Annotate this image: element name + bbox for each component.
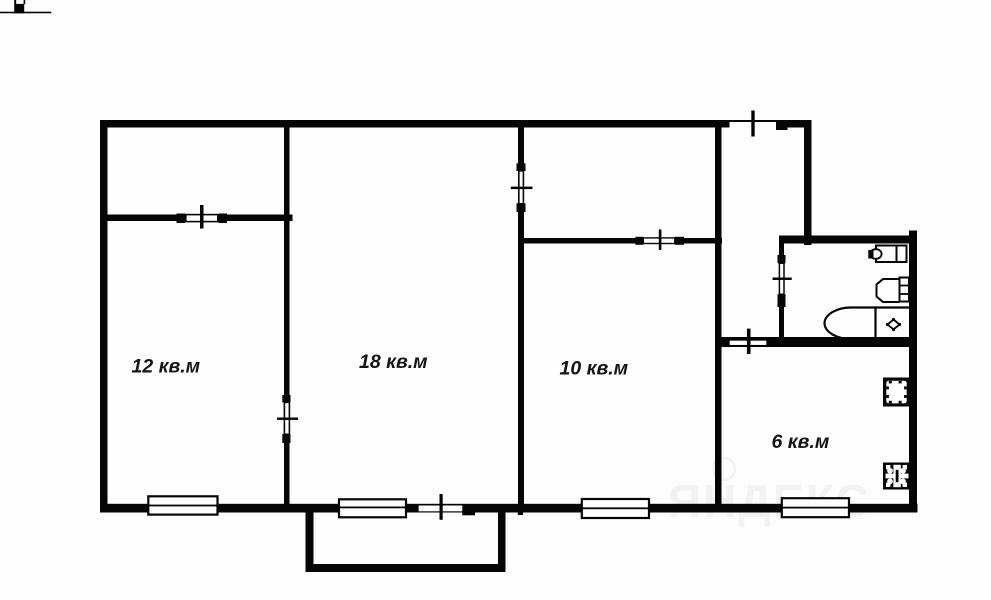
wall between 18 and hall — [518, 120, 524, 512]
door 10 top — [635, 229, 684, 250]
wall bathroom left — [779, 236, 784, 346]
bath diamond — [886, 318, 901, 331]
wall right lower outer — [909, 231, 917, 513]
window 10 midline — [582, 507, 649, 509]
window 12 midline — [148, 505, 217, 507]
bathtub — [825, 308, 910, 340]
wall bottom outer — [100, 504, 918, 513]
svg-text:6 кв.м: 6 кв.м — [772, 431, 830, 453]
door entrance top — [730, 111, 788, 137]
balcony left — [306, 512, 314, 572]
top-left artifact group — [0, 0, 51, 13]
window 12 room — [148, 496, 217, 514]
wall closet bottom — [100, 215, 293, 222]
door kitchen — [729, 329, 767, 354]
wall bathroom top — [779, 236, 917, 244]
svg-text:18 кв.м: 18 кв.м — [359, 351, 428, 373]
balcony bottom — [306, 564, 506, 572]
watermark — [668, 458, 870, 527]
wall hall-kitchen left — [715, 120, 722, 512]
door closet — [177, 205, 228, 229]
kitchen sink — [883, 378, 910, 407]
window kitchen — [782, 498, 849, 517]
top artifact vbar2 — [24, 0, 26, 4]
svg-text:10 кв.м: 10 кв.м — [560, 358, 629, 380]
top artifact square — [16, 4, 24, 13]
window 10 room — [582, 499, 649, 518]
balcony right — [498, 512, 506, 572]
door balcony — [419, 494, 523, 520]
window 18 midline — [339, 507, 406, 509]
door 18-hall — [511, 163, 533, 212]
bath sink — [868, 246, 906, 263]
window 18 room — [339, 499, 406, 517]
wall above 10 — [518, 238, 722, 244]
wall between 12 and 18 — [284, 120, 290, 512]
top artifact hline — [0, 12, 51, 14]
window kitchen midline — [782, 507, 849, 509]
door bathroom — [773, 255, 792, 307]
svg-text:12 кв.м: 12 кв.м — [132, 356, 201, 378]
wall top outer — [100, 120, 811, 128]
wall right upper outer — [804, 120, 812, 245]
top artifact vbar1 — [14, 0, 16, 13]
wall left outer — [100, 120, 108, 513]
wall kitchen top / bathroom bottom — [715, 337, 917, 347]
toilet — [877, 278, 910, 303]
kitchen stove — [883, 463, 909, 490]
door 12-18 — [277, 395, 298, 443]
